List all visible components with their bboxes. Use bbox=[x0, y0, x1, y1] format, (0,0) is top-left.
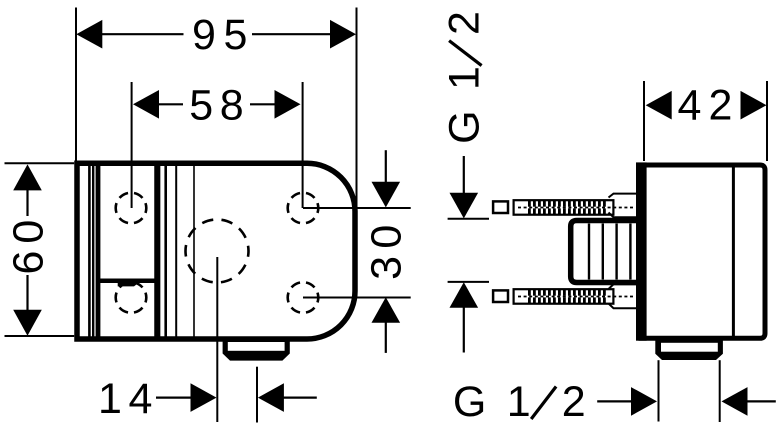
dimension 58: right extension line bbox=[302, 82, 304, 208]
mounting hole top-left (dashed) bbox=[116, 193, 147, 224]
bottom inlet: flange bottom line bbox=[609, 304, 642, 309]
svg-text:1: 1 bbox=[98, 375, 122, 423]
bottom inlet: pipe outline bbox=[514, 289, 614, 304]
front view vertical line d bbox=[164, 163, 167, 339]
dimension 30: up arrow bbox=[372, 297, 401, 323]
svg-text:1: 1 bbox=[507, 378, 531, 426]
mounting hole top-right (dashed) bbox=[288, 193, 319, 224]
dimension 58: right arrow bbox=[275, 90, 301, 119]
svg-text:G: G bbox=[453, 378, 486, 426]
dimension 14: right-pointing arrow bbox=[191, 383, 217, 412]
dimension G1/2 outlet: label bbox=[453, 378, 586, 426]
dimension 60: label (rotated) bbox=[5, 220, 53, 275]
dimension G1/2 outlet: right-pointing arrow bbox=[631, 387, 657, 416]
svg-text:G: G bbox=[441, 110, 489, 143]
dimension 58: line left segment bbox=[158, 103, 183, 105]
bottom inlet: dashed axis centerline bbox=[518, 296, 633, 298]
dimension 14: tab center extension line bbox=[256, 367, 258, 423]
dimension G1/2 inlets: up arrow bbox=[450, 282, 479, 308]
dimension G1/2 outlet: left-pointing arrow bbox=[722, 387, 748, 416]
top inlet: cap square bbox=[493, 201, 508, 213]
dimension 42: label bbox=[677, 81, 732, 129]
svg-text:4: 4 bbox=[677, 81, 701, 129]
mounting hole bottom-left (dashed) bbox=[116, 282, 147, 313]
dimension G1/2 outlet: right extension line bbox=[719, 360, 721, 422]
side view inner vertical line bbox=[732, 168, 735, 337]
dimension 95: line right segment bbox=[252, 33, 331, 35]
dimension G1/2 outlet: left extension line bbox=[658, 360, 660, 421]
svg-text:2: 2 bbox=[441, 11, 489, 35]
dimension 58: left arrow bbox=[133, 90, 159, 119]
centerline top-right hole to dimension 30 bbox=[303, 207, 411, 209]
svg-text:6: 6 bbox=[5, 251, 53, 275]
dimension 42: right arrow bbox=[741, 91, 767, 120]
front view body outline bbox=[77, 163, 355, 339]
front view center divider (thick) bbox=[154, 163, 160, 339]
dimension G1/2 inlets: top pointer line bbox=[448, 218, 489, 220]
bottom inlet: flange top line bbox=[609, 284, 642, 289]
svg-text:1: 1 bbox=[441, 66, 489, 90]
bottom inlet: cap square bbox=[493, 290, 508, 302]
svg-text:5: 5 bbox=[224, 11, 248, 59]
dimension G1/2 outlet: left line bbox=[597, 400, 632, 402]
centerline bottom-right hole to dimension 30 bbox=[303, 297, 411, 299]
dimension 60: top arrow bbox=[13, 164, 42, 190]
dimension G1/2 inlets: label (rotated) bbox=[441, 11, 489, 144]
dimension 95: right arrow bbox=[330, 20, 356, 49]
front view vertical line f bbox=[193, 163, 195, 339]
dimension 58: line right segment bbox=[250, 103, 276, 105]
svg-text:2: 2 bbox=[562, 378, 586, 426]
front view small tab under divider bbox=[118, 283, 139, 287]
dimension G1/2 inlets: upper line bbox=[463, 156, 465, 194]
dimension G1/2 outlet: right line bbox=[747, 400, 776, 402]
dimension 95: left arrow bbox=[76, 20, 102, 49]
svg-text:8: 8 bbox=[220, 82, 244, 130]
dimension 42: left arrow bbox=[646, 91, 672, 120]
dimension G1/2 inlets: bottom pointer line bbox=[448, 281, 489, 283]
dimension 60: bottom arrow bbox=[13, 310, 42, 336]
dimension 14: label bbox=[98, 375, 152, 423]
svg-text:4: 4 bbox=[129, 375, 153, 423]
side view wall-side thick edge bbox=[636, 162, 647, 340]
top inlet: thread ticks bbox=[528, 201, 606, 215]
svg-text:9: 9 bbox=[192, 11, 216, 59]
bottom inlet: thread ticks bbox=[528, 290, 606, 304]
dimension 30: upper line bbox=[385, 150, 387, 183]
dimension 42: right extension line bbox=[766, 81, 768, 161]
dimension 60: line top segment bbox=[26, 189, 28, 216]
front view wall-plate vertical line a bbox=[88, 163, 91, 339]
top inlet: dashed axis centerline bbox=[518, 207, 633, 209]
top inlet: flange bottom line bbox=[609, 213, 642, 218]
dimension 60: bottom extension line bbox=[5, 335, 75, 337]
dimension 14: left line bbox=[156, 397, 192, 399]
dimension 95: left extension line bbox=[75, 8, 77, 162]
dimension 60: top extension line bbox=[5, 162, 75, 164]
holder block rib 1 bbox=[588, 224, 590, 280]
side view bottom outlet tab bbox=[655, 338, 723, 360]
front view vertical line e bbox=[175, 163, 177, 339]
dimension 42: left extension line bbox=[643, 81, 645, 161]
front view bottom outlet tab bbox=[223, 337, 290, 361]
holder block rib 4 bbox=[629, 224, 631, 280]
svg-text:2: 2 bbox=[708, 81, 732, 129]
dimension 95: right extension line bbox=[356, 8, 358, 208]
centerline central hole down bbox=[216, 257, 218, 422]
top inlet: pipe outline bbox=[514, 200, 614, 215]
svg-text:3: 3 bbox=[362, 256, 410, 280]
dimension G1/2 inlets: down arrow bbox=[450, 193, 479, 219]
holder block rib 3 bbox=[615, 224, 617, 280]
holder block (ribbed, side view) bbox=[571, 221, 643, 283]
dimension 58: left extension line bbox=[131, 82, 133, 208]
dimension 95: line left segment bbox=[101, 33, 184, 35]
dimension 14: left-pointing arrow bbox=[258, 383, 284, 412]
front view wall-plate vertical line c (thick) bbox=[96, 163, 101, 339]
svg-text:5: 5 bbox=[189, 82, 213, 130]
svg-text:0: 0 bbox=[362, 225, 410, 249]
top inlet: flange top line bbox=[609, 194, 642, 198]
dimension 14: right line bbox=[283, 397, 317, 399]
dimension 30: label (rotated) bbox=[362, 225, 410, 280]
dimension G1/2 inlets: lower line bbox=[463, 307, 465, 353]
dimension 30: down arrow bbox=[372, 182, 401, 208]
front view wall-plate vertical line b bbox=[92, 163, 94, 339]
dimension 30: lower line bbox=[385, 322, 387, 353]
dimension 58: label bbox=[189, 82, 243, 130]
svg-text:0: 0 bbox=[5, 220, 53, 244]
dimension 60: line bottom segment bbox=[26, 275, 28, 311]
central hole (dashed) bbox=[186, 220, 249, 283]
front view horizontal divider bbox=[98, 278, 157, 283]
mounting hole bottom-right (dashed) bbox=[288, 282, 319, 313]
dimension 95: label bbox=[192, 11, 247, 59]
holder block rib 2 bbox=[602, 224, 604, 280]
side view body outline bbox=[641, 165, 765, 338]
